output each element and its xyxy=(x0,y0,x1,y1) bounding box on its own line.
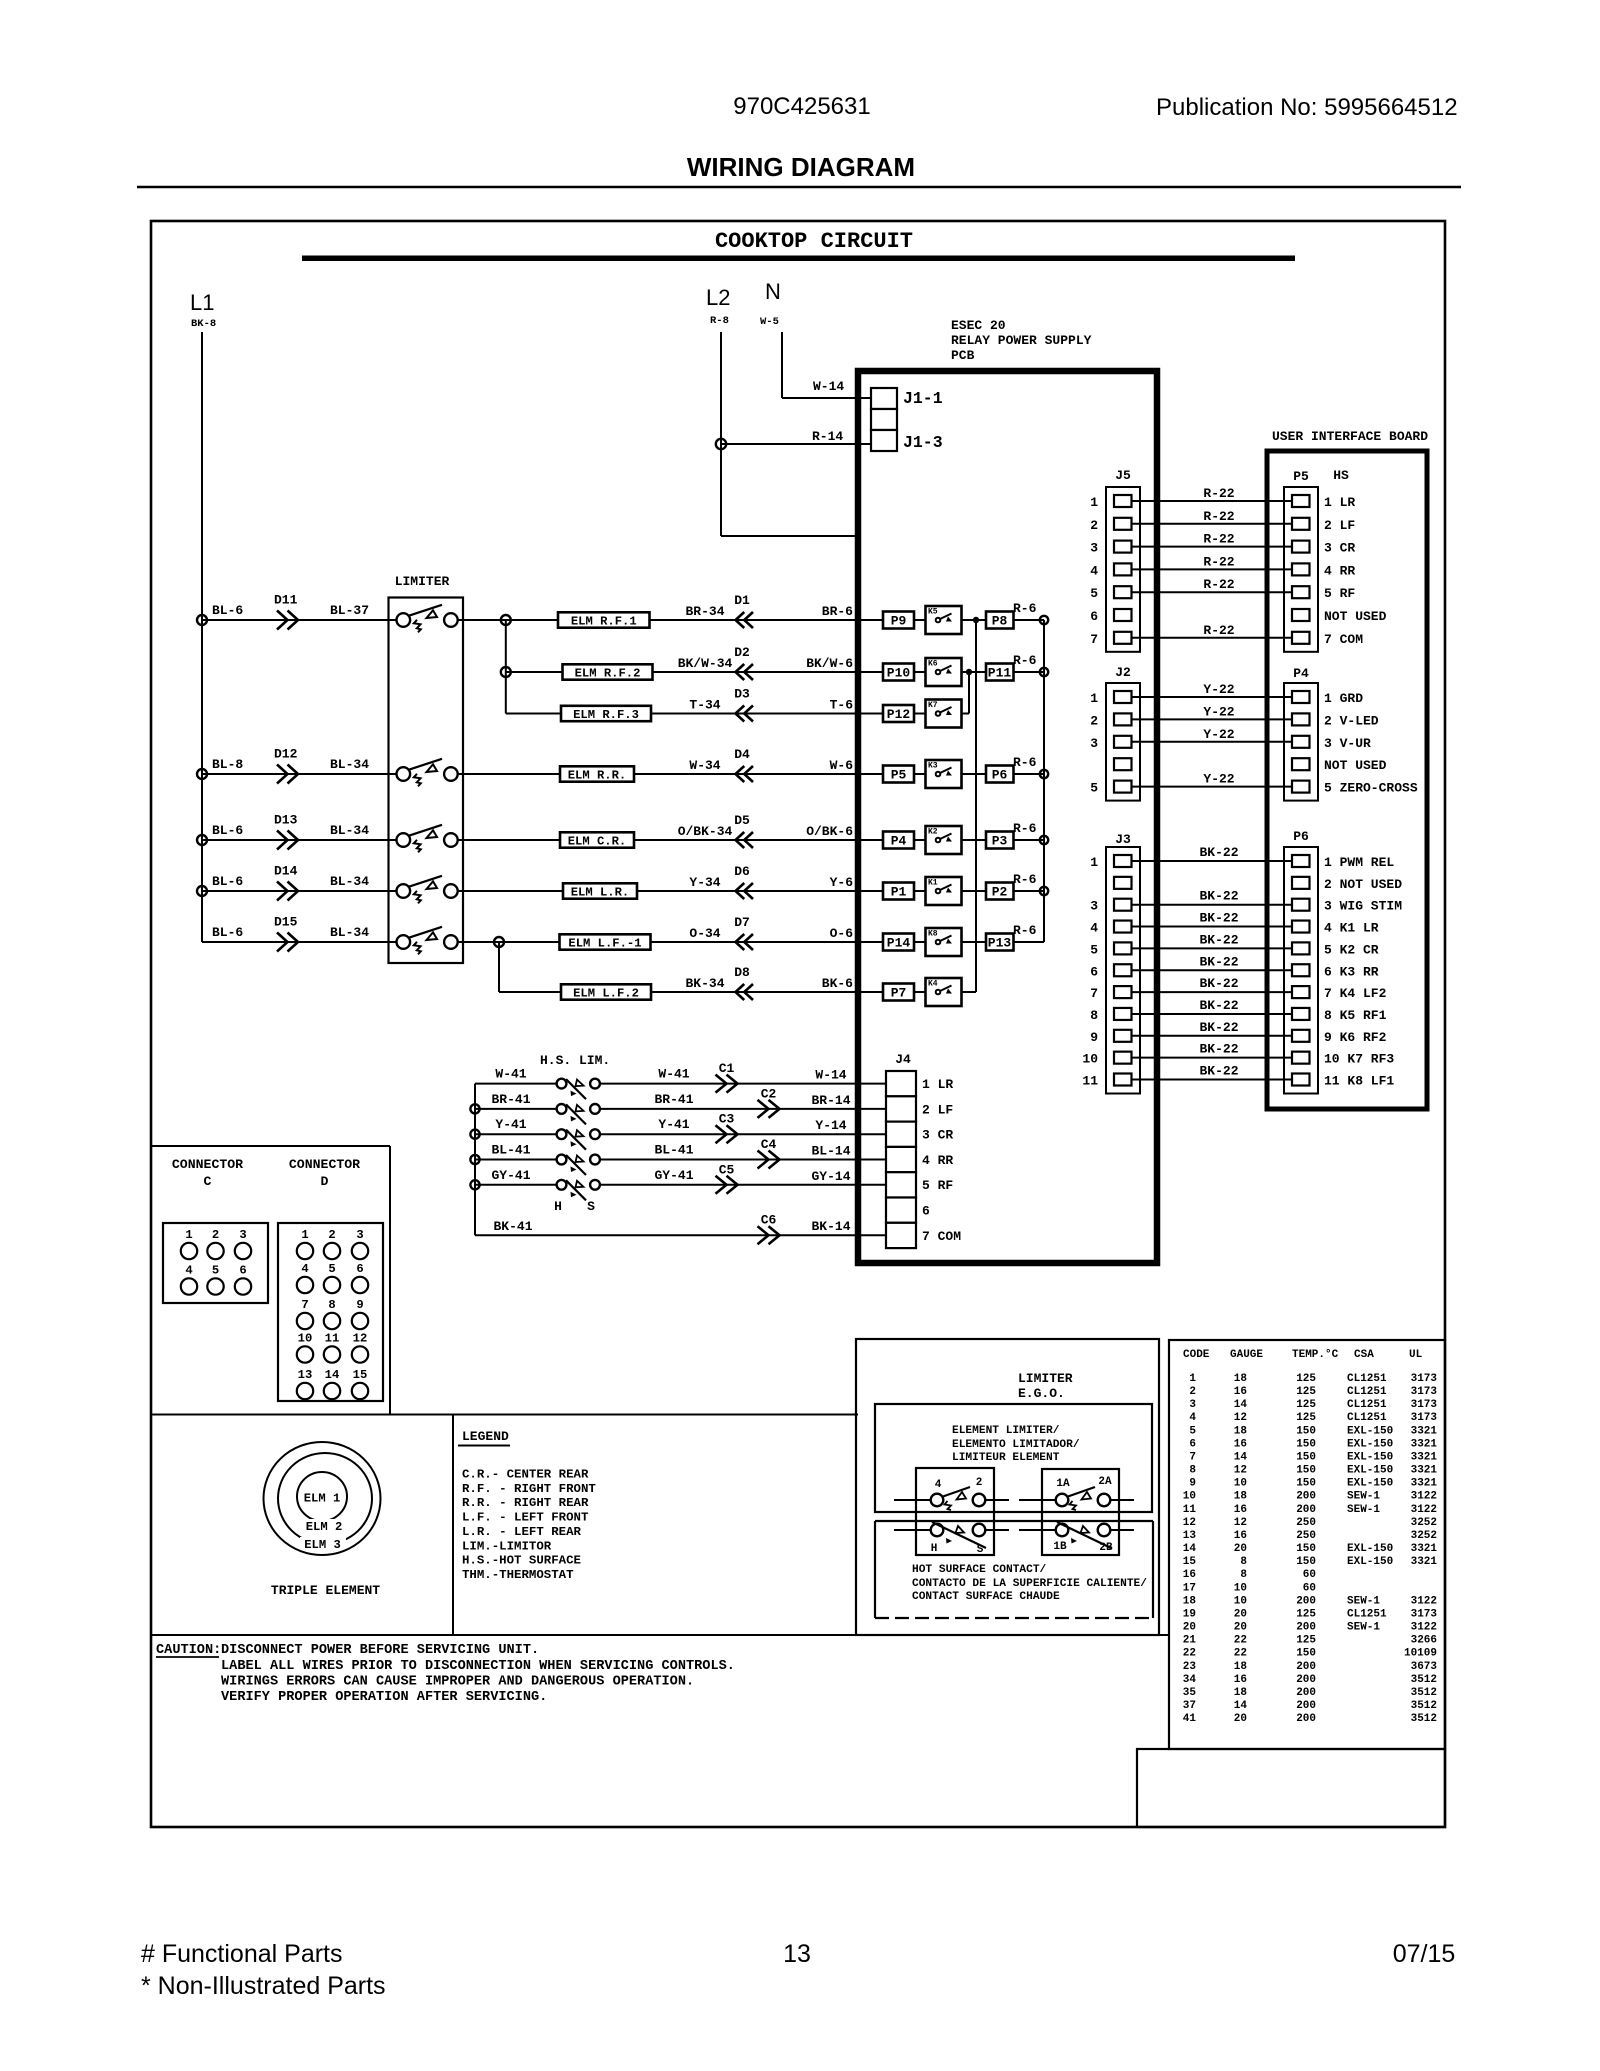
svg-text:3512: 3512 xyxy=(1411,1687,1437,1699)
svg-text:4: 4 xyxy=(1189,1412,1196,1424)
svg-text:CL1251: CL1251 xyxy=(1347,1373,1387,1385)
svg-text:6: 6 xyxy=(1189,1438,1196,1450)
svg-text:18: 18 xyxy=(1234,1687,1248,1699)
svg-text:W-41: W-41 xyxy=(495,1067,526,1082)
triple element outer ring xyxy=(264,1442,381,1555)
relay contact box K4 xyxy=(926,978,962,1006)
label ELM 1 xyxy=(299,1490,345,1503)
svg-text:5: 5 xyxy=(1090,586,1098,601)
svg-text:BK-14: BK-14 xyxy=(811,1219,850,1234)
svg-text:1A: 1A xyxy=(1056,1478,1070,1490)
svg-text:18: 18 xyxy=(1234,1661,1248,1673)
svg-text:3173: 3173 xyxy=(1411,1399,1438,1411)
header rule line xyxy=(137,186,1461,188)
svg-text:SEW-1: SEW-1 xyxy=(1347,1491,1380,1503)
svg-text:BR-41: BR-41 xyxy=(654,1092,693,1107)
svg-text:10: 10 xyxy=(1082,1052,1098,1067)
connector J5 xyxy=(1106,487,1140,652)
chevron D4 xyxy=(736,766,754,782)
relay power supply PCB thick border xyxy=(858,371,1157,1263)
wire BL-41 switch to J4 xyxy=(600,1159,887,1161)
relay contact box K1 xyxy=(926,877,962,905)
svg-text:R-22: R-22 xyxy=(1203,554,1234,569)
svg-text:BL-41: BL-41 xyxy=(491,1143,530,1158)
svg-text:5 RF: 5 RF xyxy=(1324,586,1355,601)
svg-text:BK/W-34: BK/W-34 xyxy=(678,656,733,671)
svg-text:200: 200 xyxy=(1296,1504,1316,1516)
svg-text:BR-6: BR-6 xyxy=(822,604,853,619)
svg-text:3122: 3122 xyxy=(1411,1491,1437,1503)
svg-text:J4: J4 xyxy=(895,1052,911,1067)
hot surface limit switch 4 xyxy=(557,1155,567,1165)
wire K3 to P6 xyxy=(962,773,987,775)
svg-text:7: 7 xyxy=(1090,632,1098,647)
svg-text:BL-6: BL-6 xyxy=(212,925,243,940)
limiter switch row D13 xyxy=(397,833,411,847)
svg-text:BL-34: BL-34 xyxy=(330,757,369,772)
svg-text:Y-22: Y-22 xyxy=(1203,772,1234,787)
triple element inner ring xyxy=(297,1472,347,1521)
svg-text:23: 23 xyxy=(1183,1661,1197,1673)
svg-text:5 ZERO-CROSS: 5 ZERO-CROSS xyxy=(1324,781,1418,796)
wire K7 output vertical xyxy=(962,713,970,715)
svg-text:R-22: R-22 xyxy=(1203,577,1234,592)
svg-text:3321: 3321 xyxy=(1411,1465,1438,1477)
svg-text:GY-14: GY-14 xyxy=(811,1169,850,1184)
svg-text:LIMITEUR ELEMENT: LIMITEUR ELEMENT xyxy=(952,1452,1060,1464)
H.S. bus vertical wire xyxy=(474,1084,476,1236)
svg-text:3512: 3512 xyxy=(1411,1674,1437,1686)
wire into element ELM R.R. xyxy=(457,773,560,775)
wire T-34 from ELM R.F.3 xyxy=(651,713,883,715)
svg-text:17: 17 xyxy=(1183,1582,1196,1594)
svg-text:D3: D3 xyxy=(734,687,750,702)
svg-text:14: 14 xyxy=(1234,1700,1248,1712)
element box ELM R.R. xyxy=(560,766,634,781)
svg-text:CODE: CODE xyxy=(1183,1349,1210,1361)
hot surface limit switch 5 xyxy=(557,1180,567,1190)
svg-text:LEGEND: LEGEND xyxy=(462,1429,509,1444)
wire into element ELM L.R. xyxy=(457,890,563,892)
svg-text:GY-41: GY-41 xyxy=(491,1168,530,1183)
svg-text:UL: UL xyxy=(1409,1349,1423,1361)
svg-text:3: 3 xyxy=(239,1228,246,1242)
svg-text:1: 1 xyxy=(1090,855,1098,870)
wire P4 to K2 xyxy=(914,839,926,841)
svg-text:125: 125 xyxy=(1296,1635,1316,1647)
svg-text:150: 150 xyxy=(1296,1438,1316,1450)
wire R-22 J5-4 to P5 xyxy=(1131,568,1293,570)
svg-text:R-8: R-8 xyxy=(710,315,729,327)
wire P10 to K6 xyxy=(914,671,926,673)
chevron D3 xyxy=(736,706,754,722)
svg-text:2 LF: 2 LF xyxy=(922,1102,953,1117)
svg-text:P12: P12 xyxy=(887,707,911,722)
wire Y-22 J2-3 to P4 xyxy=(1131,741,1293,743)
svg-text:BK/W-6: BK/W-6 xyxy=(806,656,853,671)
wire R-22 J5-3 to P5 xyxy=(1131,546,1293,548)
svg-text:200: 200 xyxy=(1296,1700,1316,1712)
wire BK-34 from ELM L.F.2 xyxy=(651,991,883,993)
wire P2 to R-6 bus xyxy=(1014,890,1045,892)
svg-text:10: 10 xyxy=(1183,1491,1196,1503)
svg-text:ELM R.F.2: ELM R.F.2 xyxy=(575,667,641,681)
svg-text:12: 12 xyxy=(1234,1412,1247,1424)
svg-text:2 NOT USED: 2 NOT USED xyxy=(1324,877,1402,892)
svg-text:H: H xyxy=(554,1199,562,1214)
wire W-41 to switch xyxy=(475,1083,557,1085)
svg-text:18: 18 xyxy=(1234,1491,1248,1503)
svg-text:D15: D15 xyxy=(274,915,298,930)
svg-text:W-34: W-34 xyxy=(689,758,720,773)
svg-text:D2: D2 xyxy=(734,645,750,660)
junction node RF2 branch xyxy=(501,667,511,677)
svg-text:5: 5 xyxy=(1189,1425,1196,1437)
svg-text:P3: P3 xyxy=(992,834,1008,849)
svg-text:ELM 2: ELM 2 xyxy=(306,1520,343,1534)
limiter switch row D11 xyxy=(397,613,411,627)
chevron C3 xyxy=(716,1125,738,1143)
svg-text:NOT USED: NOT USED xyxy=(1324,609,1387,624)
svg-text:H: H xyxy=(931,1543,938,1555)
svg-text:4: 4 xyxy=(1090,921,1098,936)
svg-text:D: D xyxy=(321,1174,329,1189)
svg-text:P6: P6 xyxy=(992,768,1008,783)
svg-text:150: 150 xyxy=(1296,1425,1316,1437)
svg-text:10: 10 xyxy=(1234,1595,1247,1607)
connector J3 xyxy=(1106,847,1140,1094)
wire BR-34 from ELM R.F.1 xyxy=(650,619,884,621)
svg-text:3: 3 xyxy=(1090,541,1098,556)
svg-text:H.S. LIM.: H.S. LIM. xyxy=(540,1053,610,1068)
wire O-34 from ELM L.F.-1 xyxy=(651,941,884,943)
wire BL-6 row D14 xyxy=(202,890,396,892)
junction node on L1 bus row D11 xyxy=(197,615,207,625)
wire W-34 from ELM R.R. xyxy=(634,773,883,775)
svg-text:10: 10 xyxy=(1234,1478,1247,1490)
svg-text:BK-34: BK-34 xyxy=(685,976,724,991)
wire into element ELM C.R. xyxy=(457,839,560,841)
svg-text:3321: 3321 xyxy=(1411,1451,1438,1463)
svg-text:14: 14 xyxy=(1183,1543,1197,1555)
svg-text:12: 12 xyxy=(1234,1465,1247,1477)
relay output terminal P3 xyxy=(986,832,1014,849)
junction node R-6 bus at P8 xyxy=(1040,616,1048,624)
svg-text:60: 60 xyxy=(1303,1569,1316,1581)
chevron C4 xyxy=(758,1151,780,1169)
chevron D14 xyxy=(277,882,298,901)
svg-text:7 COM: 7 COM xyxy=(922,1229,961,1244)
svg-text:R-22: R-22 xyxy=(1203,623,1234,638)
R-6 bus vertical wire xyxy=(1043,620,1045,942)
svg-text:6: 6 xyxy=(922,1204,930,1219)
svg-text:E.G.O.: E.G.O. xyxy=(1018,1386,1065,1401)
wire R-22 J5-7 to P5 xyxy=(1131,637,1293,639)
svg-text:2: 2 xyxy=(1090,518,1098,533)
svg-text:3252: 3252 xyxy=(1411,1517,1437,1529)
svg-text:60: 60 xyxy=(1303,1582,1316,1594)
svg-text:D5: D5 xyxy=(734,813,750,828)
svg-text:8: 8 xyxy=(328,1298,335,1312)
svg-text:PCB: PCB xyxy=(951,348,975,363)
svg-text:20: 20 xyxy=(1234,1608,1247,1620)
wire P9 to K5 xyxy=(914,619,926,621)
svg-text:16: 16 xyxy=(1234,1674,1247,1686)
svg-text:LIMITER: LIMITER xyxy=(1018,1371,1073,1386)
wire O/BK-34 from ELM C.R. xyxy=(634,839,883,841)
wire K5 to P8 xyxy=(962,619,987,621)
hot surface limit switch 2 xyxy=(557,1104,567,1114)
svg-text:6: 6 xyxy=(356,1262,363,1276)
svg-text:K4: K4 xyxy=(928,980,938,989)
svg-text:O-34: O-34 xyxy=(689,926,720,941)
svg-text:LABEL ALL WIRES PRIOR TO DISCO: LABEL ALL WIRES PRIOR TO DISCONNECTION W… xyxy=(221,1659,735,1674)
svg-text:K3: K3 xyxy=(928,762,938,771)
svg-text:P9: P9 xyxy=(891,614,907,629)
svg-text:2 V-LED: 2 V-LED xyxy=(1324,713,1379,728)
svg-text:5: 5 xyxy=(328,1262,335,1276)
svg-text:3512: 3512 xyxy=(1411,1700,1437,1712)
wire Y-22 J2-2 to P4 xyxy=(1131,718,1293,720)
svg-text:2: 2 xyxy=(212,1228,219,1242)
wire K8 to P13 xyxy=(962,941,987,943)
svg-text:J3: J3 xyxy=(1115,832,1131,847)
svg-text:250: 250 xyxy=(1296,1517,1316,1529)
svg-text:BL-41: BL-41 xyxy=(654,1143,693,1158)
relay input terminal P10 xyxy=(883,664,914,681)
svg-text:L2: L2 xyxy=(706,285,730,310)
junction node HS bus row 4 xyxy=(470,1155,479,1164)
element box ELM L.F.-1 xyxy=(560,934,651,949)
svg-text:C6: C6 xyxy=(761,1213,777,1228)
chevron C5 xyxy=(716,1176,738,1194)
junction node on L1 bus row D12 xyxy=(197,769,207,779)
wire BK-22 J3-8 to P6 xyxy=(1131,1013,1293,1015)
svg-text:11: 11 xyxy=(325,1332,340,1346)
wire BK-22 J3-9 to P6 xyxy=(1131,1035,1293,1037)
chevron D6 xyxy=(736,883,754,899)
wire P13 to R-6 bus xyxy=(1014,941,1045,943)
junction on L2 wire xyxy=(716,439,726,449)
svg-text:BK-22: BK-22 xyxy=(1199,911,1238,926)
element box ELM R.F.2 xyxy=(563,664,653,679)
wire code table box xyxy=(1169,1340,1445,1749)
svg-text:ELM 3: ELM 3 xyxy=(304,1538,341,1552)
svg-text:W-6: W-6 xyxy=(830,758,854,773)
svg-text:125: 125 xyxy=(1296,1386,1316,1398)
junction node on L1 bus row D14 xyxy=(197,886,207,896)
limiter box xyxy=(389,598,464,964)
svg-text:18: 18 xyxy=(1234,1373,1248,1385)
svg-text:5: 5 xyxy=(1090,942,1098,957)
svg-text:1: 1 xyxy=(301,1228,308,1242)
svg-text:P8: P8 xyxy=(992,614,1008,629)
svg-text:Y-41: Y-41 xyxy=(658,1117,689,1132)
svg-text:5 RF: 5 RF xyxy=(922,1178,953,1193)
svg-text:CSA: CSA xyxy=(1354,1349,1374,1361)
svg-text:3: 3 xyxy=(356,1228,363,1242)
svg-text:BR-14: BR-14 xyxy=(811,1093,850,1108)
hot surface contact inner box xyxy=(875,1520,1153,1522)
svg-text:3173: 3173 xyxy=(1411,1608,1438,1620)
svg-text:150: 150 xyxy=(1296,1648,1316,1660)
svg-text:R-6: R-6 xyxy=(1013,872,1037,887)
svg-text:10 K7 RF3: 10 K7 RF3 xyxy=(1324,1052,1394,1067)
svg-text:14: 14 xyxy=(1234,1451,1248,1463)
svg-text:ELM C.R.: ELM C.R. xyxy=(568,835,627,849)
svg-text:CL1251: CL1251 xyxy=(1347,1608,1387,1620)
limiter switch 1A-2A xyxy=(1019,1499,1056,1501)
svg-text:3673: 3673 xyxy=(1411,1661,1438,1673)
svg-text:11: 11 xyxy=(1082,1074,1098,1089)
svg-text:34: 34 xyxy=(1183,1674,1197,1686)
svg-text:200: 200 xyxy=(1296,1622,1316,1634)
svg-text:CONTACT SURFACE CHAUDE: CONTACT SURFACE CHAUDE xyxy=(912,1591,1060,1603)
svg-text:BK-22: BK-22 xyxy=(1199,976,1238,991)
relay input terminal P4 xyxy=(883,832,914,849)
svg-text:EXL-150: EXL-150 xyxy=(1347,1478,1393,1490)
svg-text:H.S.-HOT SURFACE: H.S.-HOT SURFACE xyxy=(462,1554,581,1568)
svg-text:15: 15 xyxy=(1183,1556,1197,1568)
svg-text:3173: 3173 xyxy=(1411,1373,1438,1385)
svg-text:R-22: R-22 xyxy=(1203,486,1234,501)
svg-text:1 LR: 1 LR xyxy=(1324,495,1355,510)
svg-text:R-14: R-14 xyxy=(812,429,843,444)
svg-text:J5: J5 xyxy=(1115,468,1131,483)
svg-text:10109: 10109 xyxy=(1404,1648,1437,1660)
bottom right box xyxy=(1137,1749,1445,1827)
svg-text:W-41: W-41 xyxy=(658,1067,689,1082)
connector section box xyxy=(152,1145,390,1147)
element limiter switch box right xyxy=(1042,1469,1119,1555)
svg-text:CAUTION:: CAUTION: xyxy=(156,1643,221,1658)
wire BR-41 switch to J4 xyxy=(600,1108,887,1110)
svg-text:P11: P11 xyxy=(988,666,1012,681)
svg-text:BR-34: BR-34 xyxy=(685,604,724,619)
wire K1 to P2 xyxy=(962,890,987,892)
svg-text:22: 22 xyxy=(1183,1648,1196,1660)
svg-text:R-6: R-6 xyxy=(1013,653,1037,668)
svg-text:9: 9 xyxy=(1090,1030,1098,1045)
svg-text:3 WIG STIM: 3 WIG STIM xyxy=(1324,899,1402,914)
svg-text:20: 20 xyxy=(1234,1543,1247,1555)
svg-text:BL-34: BL-34 xyxy=(330,874,369,889)
svg-text:GAUGE: GAUGE xyxy=(1230,1349,1263,1361)
wire W-14 to J1-1 xyxy=(782,397,871,399)
wire P6 to R-6 bus xyxy=(1014,773,1045,775)
svg-text:EXL-150: EXL-150 xyxy=(1347,1438,1393,1450)
relay contact box K7 xyxy=(926,700,962,728)
wire BK-22 J3-1 to P6 xyxy=(1131,860,1293,862)
svg-text:8: 8 xyxy=(1090,1008,1098,1023)
svg-text:5: 5 xyxy=(212,1264,219,1278)
connector D box xyxy=(278,1223,383,1401)
svg-text:19: 19 xyxy=(1183,1608,1196,1620)
L1 bus wire vertical xyxy=(201,332,203,942)
svg-text:150: 150 xyxy=(1296,1556,1316,1568)
chevron D15 xyxy=(277,933,298,952)
svg-text:3321: 3321 xyxy=(1411,1556,1438,1568)
svg-text:2: 2 xyxy=(328,1228,335,1242)
svg-text:SEW-1: SEW-1 xyxy=(1347,1504,1380,1516)
svg-text:T-34: T-34 xyxy=(689,698,720,713)
svg-text:21: 21 xyxy=(1183,1635,1197,1647)
svg-text:DISCONNECT POWER BEFORE SERVIC: DISCONNECT POWER BEFORE SERVICING UNIT. xyxy=(221,1643,539,1658)
svg-text:8: 8 xyxy=(1240,1569,1247,1581)
relay input terminal P12 xyxy=(883,705,914,722)
svg-text:4: 4 xyxy=(185,1264,192,1278)
relay contact box K5 xyxy=(926,606,962,634)
svg-text:C2: C2 xyxy=(761,1086,777,1101)
relay contact box K6 xyxy=(926,658,962,686)
svg-text:CL1251: CL1251 xyxy=(1347,1386,1387,1398)
svg-text:4 K1 LR: 4 K1 LR xyxy=(1324,921,1379,936)
svg-text:C.R.- CENTER REAR: C.R.- CENTER REAR xyxy=(462,1468,589,1482)
svg-text:ELM R.F.3: ELM R.F.3 xyxy=(573,708,639,722)
wire BR-41 to switch xyxy=(475,1108,557,1110)
relay internal bus vertical wire xyxy=(975,620,977,992)
hot surface switch 1B-2B xyxy=(1019,1529,1056,1531)
relay input terminal P14 xyxy=(883,934,914,951)
label ELM 3 xyxy=(300,1537,346,1549)
svg-text:VERIFY PROPER OPERATION AFTER: VERIFY PROPER OPERATION AFTER SERVICING. xyxy=(221,1690,547,1705)
svg-text:3122: 3122 xyxy=(1411,1595,1437,1607)
svg-text:BL-37: BL-37 xyxy=(330,603,369,618)
svg-text:CONTACTO DE LA SUPERFICIE CALI: CONTACTO DE LA SUPERFICIE CALIENTE/ xyxy=(912,1578,1147,1590)
svg-text:12: 12 xyxy=(353,1332,368,1346)
svg-text:J1-3: J1-3 xyxy=(903,433,943,452)
divider between triple element and legend xyxy=(452,1415,454,1636)
wire BK/W-34 from ELM R.F.2 xyxy=(653,671,884,673)
svg-text:BL-6: BL-6 xyxy=(212,874,243,889)
connector P5 xyxy=(1284,487,1318,652)
svg-text:2 LF: 2 LF xyxy=(1324,518,1355,533)
svg-text:4: 4 xyxy=(1090,563,1098,578)
svg-text:ELEMENT LIMITER/: ELEMENT LIMITER/ xyxy=(952,1425,1060,1437)
relay contact box K3 xyxy=(926,760,962,788)
svg-text:R.F. - RIGHT FRONT: R.F. - RIGHT FRONT xyxy=(462,1482,596,1496)
svg-text:L1: L1 xyxy=(190,290,214,315)
svg-text:TEMP.°C: TEMP.°C xyxy=(1292,1349,1339,1361)
svg-text:Y-14: Y-14 xyxy=(815,1118,846,1133)
wire K2 to P3 xyxy=(962,839,987,841)
wire K4 output to bus xyxy=(962,991,977,993)
svg-text:3 CR: 3 CR xyxy=(922,1128,953,1143)
svg-text:W-14: W-14 xyxy=(813,379,844,394)
svg-text:THM.-THERMOSTAT: THM.-THERMOSTAT xyxy=(462,1568,574,1582)
svg-text:BK-22: BK-22 xyxy=(1199,1020,1238,1035)
label ELM 2 xyxy=(301,1519,347,1531)
svg-text:P2: P2 xyxy=(992,885,1008,900)
svg-text:HS: HS xyxy=(1333,468,1349,483)
svg-text:CONNECTOR: CONNECTOR xyxy=(172,1157,243,1172)
svg-text:D8: D8 xyxy=(734,965,750,980)
wire P3 to R-6 bus xyxy=(1014,839,1045,841)
limiter switch row D14 xyxy=(397,884,411,898)
chevron D2 xyxy=(736,664,754,680)
wire Y-34 from ELM L.R. xyxy=(637,890,883,892)
wire to ELM R.F.2 xyxy=(506,671,563,673)
wire BL-6 row D15 xyxy=(202,941,396,943)
svg-text:3122: 3122 xyxy=(1411,1504,1437,1516)
section divider line above legend xyxy=(151,1414,858,1416)
wire BK-22 J3-10 to P6 xyxy=(1131,1057,1293,1059)
svg-text:Y-22: Y-22 xyxy=(1203,704,1234,719)
element box ELM R.F.3 xyxy=(561,706,651,721)
svg-text:4: 4 xyxy=(301,1262,308,1276)
svg-text:37: 37 xyxy=(1183,1700,1196,1712)
wire GY-41 switch to J4 xyxy=(600,1184,887,1186)
